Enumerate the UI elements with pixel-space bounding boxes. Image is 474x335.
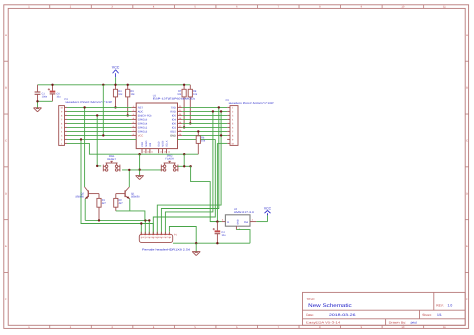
svg-text:GND: GND [170, 135, 176, 138]
wire IO2 row to P2 pin6 [182, 126, 227, 128]
junction bottom rail gnd drop [138, 153, 140, 155]
transistor Q1 [116, 187, 140, 199]
frame row ticks and letters [4, 34, 469, 301]
wire P1 pin8 to ground net [169, 227, 196, 244]
wire bundle pin1 drop [140, 224, 142, 235]
svg-text:ADC: ADC [138, 111, 144, 114]
capacitor C6 [48, 85, 61, 102]
wire TXD drop to P1 pin6 [161, 107, 218, 234]
svg-text:S58050: S58050 [131, 195, 140, 198]
junction R3 to EN row [127, 114, 129, 116]
wire SW2 left lead [140, 169, 162, 171]
svg-text:C: C [466, 139, 468, 142]
svg-text:TITLE:: TITLE: [306, 297, 315, 301]
wire TXD row to P2 pin1 [182, 106, 227, 108]
junction ground line P1 [195, 242, 197, 244]
title block REV [436, 303, 452, 307]
junction rail R7 [183, 84, 185, 86]
junction SW1 left [96, 165, 98, 167]
junction Q1 collector [128, 169, 130, 171]
resistor R1 [97, 194, 107, 221]
wire P3 pin2 long drop [81, 139, 153, 234]
wire SW1 left lead [97, 165, 101, 167]
junction R8 to IO0 row [189, 122, 191, 124]
junction bundle P1 pin3 [148, 219, 150, 221]
title block Date [306, 313, 355, 317]
svg-text:B: B [5, 87, 7, 90]
wire VCC pin row [67, 134, 131, 136]
svg-text:10u: 10u [56, 96, 61, 99]
wire U2 In feed [210, 221, 221, 223]
junction TXD drop [218, 106, 220, 108]
svg-text:1.0: 1.0 [448, 303, 453, 307]
svg-text:2018-03-26: 2018-03-26 [329, 313, 356, 317]
junction VCC drop row [102, 134, 104, 136]
svg-text:E: E [466, 245, 468, 248]
svg-text:1/1: 1/1 [437, 313, 442, 317]
wire U2 Out to VCC [256, 215, 267, 221]
wire Q1 collector up [128, 170, 130, 187]
wire SW2 to U2 In route [191, 166, 218, 221]
junction GND row drop [220, 134, 222, 136]
junction C4 bottom [216, 242, 218, 244]
wire IO4 row to P2 pin4 [182, 118, 227, 120]
wire Q2 emitter down [84, 199, 86, 221]
VCC power symbol top [112, 66, 120, 85]
svg-text:Sheet:: Sheet: [422, 313, 431, 317]
wire bottom ground line [173, 242, 250, 244]
svg-text:IO0: IO0 [172, 123, 177, 126]
title block schematic name [308, 303, 352, 309]
capacitor C4 [213, 222, 226, 244]
title block TITLE label [306, 297, 315, 301]
header P3 [59, 98, 113, 146]
svg-text:MISO: MISO [145, 141, 148, 147]
svg-text:SCLK: SCLK [166, 140, 169, 147]
wire U2 GND to ground line [236, 230, 250, 244]
svg-text:New Schematic: New Schematic [308, 303, 352, 309]
svg-text:EasyEDA V5-3-14: EasyEDA V5-3-14 [306, 321, 340, 325]
wire GPIO16 net row [67, 118, 131, 120]
svg-text:VCC: VCC [138, 135, 144, 138]
junction rail R3 [127, 84, 129, 86]
wire EN row to SW1 [96, 115, 98, 165]
wire GND row drop to P1 pin5 [157, 111, 221, 234]
svg-text:4k7: 4k7 [119, 202, 124, 205]
svg-text:IO4: IO4 [172, 119, 177, 122]
svg-text:3V3 TX RX GND GPIO0 5V RST EN: 3V3 TX RX GND GPIO0 5V RST EN [141, 236, 172, 239]
junction gnd SW2 lead [138, 169, 140, 171]
junction GND row drop top [220, 110, 222, 112]
title block [303, 292, 466, 325]
svg-text:IO10: IO10 [158, 141, 161, 147]
svg-text:D: D [5, 192, 7, 195]
wire VCC drop to chip VCC pin [102, 85, 104, 136]
resistor R7 [177, 85, 186, 128]
svg-text:GPIO13: GPIO13 [138, 131, 148, 134]
svg-text:IO2: IO2 [172, 127, 177, 130]
junction R4 to RST row [114, 106, 116, 108]
junction rail at VCC drop [102, 84, 104, 86]
wire SW2 right drop from rail [183, 154, 185, 166]
svg-text:RESET: RESET [107, 158, 116, 161]
svg-text:GND: GND [237, 219, 240, 224]
svg-text:Headers Pins2.54mm*1*10P: Headers Pins2.54mm*1*10P [66, 101, 113, 104]
wire SW2 right lead [178, 165, 191, 167]
svg-text:B: B [466, 87, 468, 90]
junction P3 pin2 drop [80, 138, 82, 140]
wire C1-C6 ground link [38, 101, 53, 107]
svg-text:D: D [466, 192, 468, 195]
svg-text:REV:: REV: [436, 303, 443, 307]
resistor R2 [114, 194, 124, 211]
resistor R6 [196, 131, 206, 154]
junction C6 top [51, 84, 53, 86]
svg-text:Date:: Date: [306, 313, 314, 317]
svg-text:GPIO16: GPIO16 [138, 119, 148, 122]
svg-text:Drawn By:: Drawn By: [389, 321, 407, 325]
svg-text:100n: 100n [42, 96, 48, 99]
ground symbol near C1 [34, 108, 42, 112]
switch SW2 FLASH [161, 154, 178, 171]
ground symbol bottom [192, 243, 200, 255]
wire bundle line A [85, 220, 149, 234]
junction R1 bottom [98, 219, 100, 221]
ground symbol center [136, 176, 144, 180]
svg-text:A: A [466, 34, 468, 37]
svg-text:RXD: RXD [170, 111, 176, 114]
wire SW1 right to gnd net [122, 169, 140, 171]
svg-text:IO9: IO9 [149, 142, 152, 147]
title block EasyEDA version [306, 321, 340, 325]
junction R7 to IO2 row [183, 126, 185, 128]
svg-text:S58050: S58050 [75, 195, 84, 198]
svg-text:CS0: CS0 [141, 141, 144, 146]
svg-text:TXD: TXD [171, 107, 176, 110]
svg-text:AMS1117-3.3: AMS1117-3.3 [234, 211, 255, 214]
wire GPIO12 net row [67, 126, 131, 128]
junction RXD drop [212, 110, 214, 112]
wire P3 pin2 to P2 pin9 net [67, 138, 215, 140]
header P2 [226, 99, 274, 145]
header P1 female [139, 232, 190, 252]
junction SW2 right b [189, 165, 191, 167]
svg-text:Headers Pins2.54mm*1*10P: Headers Pins2.54mm*1*10P [229, 102, 274, 105]
wire P3 pin1 jog to bottom rail [67, 143, 198, 154]
wire bundle line C [116, 211, 145, 221]
resistor R3 [126, 85, 136, 116]
svg-text:GPIO12: GPIO12 [138, 127, 148, 130]
resistor R8 [188, 85, 198, 124]
wire IO0 row to P2 pin5 [182, 122, 227, 124]
capacitor C1 [35, 85, 48, 102]
wire IO15 row to P2 pin7 [182, 130, 227, 132]
resistor R4 [113, 85, 123, 108]
wire P2 pin9 drop [153, 139, 215, 234]
svg-text:Out: Out [244, 221, 248, 224]
junction bundle P1 pin2 [144, 219, 146, 221]
svg-text:E: E [5, 245, 7, 248]
junction rail R4 [114, 84, 116, 86]
svg-text:4k7: 4k7 [102, 202, 107, 205]
svg-text:IO5: IO5 [172, 115, 177, 118]
svg-text:C: C [5, 139, 7, 142]
svg-text:GPIO14: GPIO14 [138, 123, 148, 126]
svg-text:Female headerHDR1X8 2.54: Female headerHDR1X8 2.54 [142, 248, 191, 251]
switch SW1 RESET [103, 155, 120, 171]
svg-text:VCC: VCC [112, 66, 120, 70]
junction EN row SW1 drop [96, 114, 98, 116]
svg-text:VCC: VCC [264, 207, 272, 211]
wire P3 pin10 to Q2 collector [84, 107, 86, 187]
junction P3 pin10 drop [83, 106, 85, 108]
wire Q1 emitter down [129, 199, 131, 211]
wire RST net row [67, 106, 131, 108]
wire RXD row to P2 pin2 [182, 110, 227, 112]
wire IO5 row to P2 pin3 [182, 114, 227, 116]
svg-text:IO15: IO15 [170, 131, 176, 134]
wire VCC rail [38, 84, 191, 86]
svg-text:RST: RST [138, 107, 144, 110]
wire GPIO13 net row [67, 130, 131, 132]
junction SW2 right a [183, 165, 185, 167]
wire 5V feed P2 pin10 to U2 In [216, 143, 218, 221]
wire GND row to P2 pin8 [182, 134, 227, 136]
wire EN net row [67, 114, 131, 116]
svg-text:A: A [5, 34, 7, 37]
junction R6 top IO15 row [197, 130, 199, 132]
op-amp U2 AMS1117-3.3 regulator [222, 208, 257, 230]
junction bottom rail SW2 drop [183, 153, 185, 155]
svg-text:EN(CH-PD): EN(CH-PD) [138, 115, 152, 118]
svg-text:10u: 10u [221, 234, 226, 237]
wire ADC net row [67, 110, 131, 112]
wire gnd vertical SW1-SW2 [139, 154, 141, 175]
junction C1 bottom [36, 100, 38, 102]
junction bundle pin1 [140, 222, 142, 224]
op-amp U1 ESP-12F module [131, 94, 195, 153]
title block Sheet [422, 313, 442, 317]
wire RXD drop to P1 pin7 [165, 111, 213, 234]
wire P2 pin10 feed [217, 142, 227, 144]
svg-text:MOSI: MOSI [162, 140, 165, 146]
title block Drawn By [389, 321, 417, 325]
VCC power symbol at regulator [264, 207, 272, 216]
svg-text:FLASH: FLASH [165, 158, 173, 161]
svg-text:peut: peut [411, 321, 417, 325]
wire GPIO14 net row [67, 122, 131, 124]
svg-text:ESP-12F(ESP8266MOD): ESP-12F(ESP8266MOD) [153, 98, 195, 101]
transistor Q2 [75, 187, 99, 199]
junction U2 In [216, 220, 218, 222]
